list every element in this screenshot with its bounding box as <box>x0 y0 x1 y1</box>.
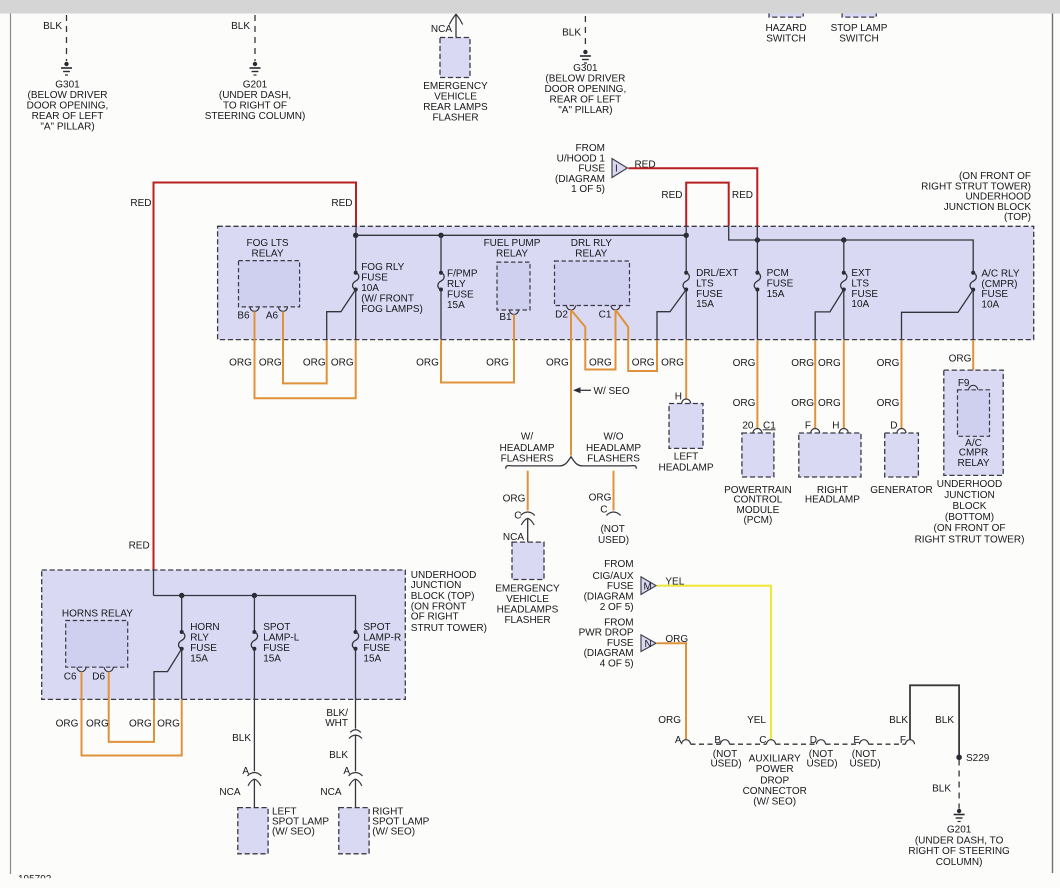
svg-text:H: H <box>832 420 839 431</box>
svg-text:REAR OF LEFT: REAR OF LEFT <box>550 95 622 106</box>
wire ORG from F/PMP fuse to pin B1 <box>441 314 514 382</box>
wire bus 1 inside junction block <box>356 234 687 236</box>
svg-text:E: E <box>853 735 860 746</box>
wire ORG from pin C6 to HORN fuse output <box>82 672 182 756</box>
svg-text:LAMP-R: LAMP-R <box>363 633 401 644</box>
wire ORG jumper pin D2 to pin C1 <box>571 310 616 370</box>
svg-text:(W/ SEO): (W/ SEO) <box>272 827 315 838</box>
wire PCM feed stub (from connector I) into bus 2 <box>756 226 758 240</box>
wire ORG option branch (not used) <box>613 471 615 511</box>
svg-text:ORG: ORG <box>56 718 79 729</box>
label BLK/WHT <box>325 708 348 729</box>
svg-text:BLK: BLK <box>43 21 62 32</box>
svg-text:ORG: ORG <box>791 358 814 369</box>
svg-text:15A: 15A <box>767 289 785 300</box>
wire ORG from A/C fuse to A/C CMPR RELAY pin F9 <box>972 340 974 385</box>
node junction on bus 1 at F/PMP fuse <box>439 233 443 237</box>
svg-text:(BELOW DRIVER: (BELOW DRIVER <box>27 90 107 101</box>
pin C (not used) <box>598 505 629 547</box>
wire BLK from inline connector to pin A <box>355 735 357 771</box>
svg-text:C: C <box>514 511 521 522</box>
wire NCA arrow into emergency vehicle rear lamps flasher <box>431 14 463 42</box>
component: LEFT HEADLAMP <box>658 392 713 474</box>
svg-text:NCA: NCA <box>320 787 341 798</box>
svg-text:"A" PILLAR): "A" PILLAR) <box>558 105 612 116</box>
svg-text:ORG: ORG <box>303 357 326 368</box>
svg-text:RELAY: RELAY <box>575 248 607 259</box>
pin A of RIGHT SPOT LAMP with NCA arrow <box>320 766 362 812</box>
svg-text:15A: 15A <box>447 300 465 311</box>
label AUXILIARY POWER DROP CONNECTOR (W/ SEO) <box>743 753 807 807</box>
svg-text:NCA: NCA <box>503 532 524 543</box>
node junction on bus 1 at FOG fuse <box>354 233 358 237</box>
svg-text:A: A <box>675 735 682 746</box>
svg-text:20: 20 <box>742 420 754 431</box>
svg-text:G301: G301 <box>573 63 598 74</box>
svg-text:ORG: ORG <box>546 358 569 369</box>
wire ORG from DRL/EXT fuse to LEFT HEADLAMP pin H <box>685 340 687 399</box>
wire BLK from pin F up over to S229 <box>910 685 959 757</box>
wire BLK dashed from S229 to ground G201 <box>932 760 959 809</box>
svg-text:USED): USED) <box>598 535 629 546</box>
pin F of aux power drop connector <box>900 735 915 746</box>
svg-text:ORG: ORG <box>129 718 152 729</box>
svg-text:(BELOW DRIVER: (BELOW DRIVER <box>545 74 625 85</box>
svg-text:LEFT: LEFT <box>674 452 698 463</box>
svg-text:N: N <box>645 639 652 650</box>
svg-text:HEADLAMP: HEADLAMP <box>499 443 554 454</box>
underhood junction block (top) - horns section <box>42 570 487 700</box>
svg-text:(ON FRONT OF: (ON FRONT OF <box>933 523 1005 534</box>
svg-text:RED: RED <box>130 198 151 209</box>
svg-text:FLASHER: FLASHER <box>432 113 478 124</box>
svg-text:BLOCK (TOP): BLOCK (TOP) <box>411 591 475 602</box>
svg-text:F/PMP: F/PMP <box>447 269 478 280</box>
svg-text:ORG: ORG <box>949 353 972 364</box>
svg-text:HAZARD: HAZARD <box>765 23 806 34</box>
svg-text:ORG: ORG <box>818 398 841 409</box>
svg-text:W/O: W/O <box>604 432 624 443</box>
pin D (not used) <box>806 735 837 770</box>
svg-text:REAR OF LEFT: REAR OF LEFT <box>32 111 104 122</box>
switch: HAZARD SWITCH (cut off at top) <box>765 6 806 45</box>
pin A6 of FOG LTS RELAY <box>266 307 288 322</box>
fuse F9s: SPOT LAMP-R FUSE 15A <box>352 622 401 700</box>
svg-text:BLK: BLK <box>562 28 581 39</box>
svg-text:ORG: ORG <box>503 494 526 505</box>
pin C6 of HORNS RELAY <box>64 667 86 683</box>
svg-text:DOOR OPENING,: DOOR OPENING, <box>27 101 109 112</box>
svg-text:JUNCTION: JUNCTION <box>411 580 462 591</box>
wire BLK to ground G201 (left) <box>231 15 255 61</box>
svg-text:G201: G201 <box>947 824 972 835</box>
svg-text:(UNDER DASH,: (UNDER DASH, <box>219 90 291 101</box>
pin D2 of DRL RLY RELAY <box>555 306 575 321</box>
svg-text:NCA: NCA <box>431 24 452 35</box>
svg-text:RIGHT OF STEERING: RIGHT OF STEERING <box>908 846 1010 857</box>
svg-text:(UNDER DASH, TO: (UNDER DASH, TO <box>915 835 1004 846</box>
svg-text:4 OF 5): 4 OF 5) <box>600 659 634 670</box>
svg-text:2 OF 5): 2 OF 5) <box>600 602 634 613</box>
svg-text:USED): USED) <box>849 759 880 770</box>
svg-text:BLK: BLK <box>889 715 908 726</box>
svg-text:RED: RED <box>129 540 150 551</box>
relay U1: FOG LTS RELAY <box>239 238 300 307</box>
svg-text:ORG: ORG <box>486 357 509 368</box>
svg-text:S229: S229 <box>966 753 990 764</box>
component: LEFT SPOT LAMP (W/ SEO) <box>238 807 330 854</box>
svg-text:YEL: YEL <box>747 715 766 726</box>
wire RED jumper loop over junction block (bump) <box>686 183 729 227</box>
brace splitting D2 wire into options <box>506 457 637 469</box>
svg-text:RLY: RLY <box>190 633 209 644</box>
wire NCA arrow into EMERGENCY VEHICLE HEADLAMPS FLASHER <box>503 518 534 546</box>
svg-text:A6: A6 <box>266 311 279 322</box>
svg-text:COLUMN): COLUMN) <box>936 857 983 868</box>
svg-text:FUSE: FUSE <box>190 643 217 654</box>
svg-text:(TOP): (TOP) <box>1004 212 1031 223</box>
relay U3: DRL RLY RELAY <box>555 238 630 306</box>
svg-text:DOOR OPENING,: DOOR OPENING, <box>545 84 627 95</box>
svg-text:SWITCH: SWITCH <box>766 34 805 45</box>
underhood junction block (top) <box>218 171 1034 340</box>
fuse F8: SPOT LAMP-L FUSE 15A <box>251 596 300 700</box>
svg-text:ORG: ORG <box>259 357 282 368</box>
component: RIGHT HEADLAMP, pins F and H <box>799 420 861 505</box>
svg-text:A: A <box>343 766 350 777</box>
svg-text:ORG: ORG <box>877 358 900 369</box>
wire ORG from EXT LTS fuse to RIGHT HEADLAMP pin H <box>843 340 845 429</box>
svg-text:C6: C6 <box>64 672 77 683</box>
svg-text:RIGHT STRUT TOWER): RIGHT STRUT TOWER) <box>915 535 1025 546</box>
pin A of aux power drop connector <box>675 735 691 746</box>
svg-text:FLASHERS: FLASHERS <box>501 453 554 464</box>
svg-text:B: B <box>714 735 721 746</box>
svg-text:FUSE: FUSE <box>361 273 388 284</box>
node junction at HORN RLY fuse <box>180 593 184 597</box>
svg-text:"A" PILLAR): "A" PILLAR) <box>40 122 94 133</box>
svg-text:ORG: ORG <box>331 357 354 368</box>
svg-text:TO RIGHT OF: TO RIGHT OF <box>223 101 287 112</box>
pin C of headlamps flasher harness <box>514 511 535 522</box>
svg-text:B6: B6 <box>237 311 250 322</box>
wire RED main loop to left and down to horns junction block <box>154 183 357 571</box>
svg-text:10A: 10A <box>851 299 869 310</box>
pin B6 of FOG LTS RELAY <box>237 307 259 322</box>
svg-text:ORG: ORG <box>229 357 252 368</box>
svg-text:A: A <box>242 766 249 777</box>
svg-text:W/: W/ <box>521 432 533 443</box>
svg-text:ORG: ORG <box>589 358 612 369</box>
svg-text:FROM: FROM <box>604 559 633 570</box>
wire ORG option branch to flasher pin C <box>527 471 529 511</box>
svg-text:EMERGENCY: EMERGENCY <box>423 81 488 92</box>
flasher module: EMERGENCY VEHICLE REAR LAMPS FLASHER <box>423 38 488 124</box>
label option W/O HEADLAMP FLASHERS <box>586 432 641 465</box>
svg-text:VEHICLE: VEHICLE <box>434 92 477 103</box>
svg-text:POWER: POWER <box>756 764 794 775</box>
pin B1 of FUEL PUMP RELAY <box>499 310 518 323</box>
node junction at SPOT LAMP-L fuse <box>252 593 256 597</box>
svg-text:AUXILIARY: AUXILIARY <box>749 753 801 764</box>
svg-text:F: F <box>900 735 906 746</box>
component: POWERTRAIN CONTROL MODULE (PCM), pin 20 connector C1 <box>724 420 792 526</box>
inline connector on right spot lamp wire <box>349 730 362 739</box>
wire ORG from pin A6 to FOG fuse branch <box>283 311 327 383</box>
connector: AUXILIARY POWER DROP CONNECTOR (W/ SEO), pins A-F <box>691 743 906 745</box>
svg-text:B1: B1 <box>499 312 512 323</box>
fuse F7: HORN RLY FUSE 15A <box>154 596 220 700</box>
svg-text:GENERATOR: GENERATOR <box>870 485 932 496</box>
svg-text:FLASHER: FLASHER <box>504 615 550 626</box>
wire ORG from pin D2 down to flasher option brace <box>570 310 572 456</box>
svg-text:USED): USED) <box>806 759 837 770</box>
svg-text:15A: 15A <box>363 653 381 664</box>
wire BLK from SPOT LAMP-L fuse to pin A <box>253 699 255 771</box>
pin C of aux power drop connector <box>759 735 775 746</box>
wire ORG from pin D6 to HORN fuse branch <box>109 672 154 742</box>
svg-text:RELAY: RELAY <box>496 248 528 259</box>
svg-text:15A: 15A <box>696 299 714 310</box>
svg-text:JUNCTION: JUNCTION <box>944 490 995 501</box>
node junction on bus 2 at EXT LTS fuse <box>842 238 846 242</box>
svg-text:UNDERHOOD: UNDERHOOD <box>937 479 1003 490</box>
svg-text:BLK: BLK <box>232 733 251 744</box>
fuse F1: FOG RLY FUSE 10A (W/ FRONT FOG LAMPS) <box>327 235 423 339</box>
svg-text:I: I <box>615 164 618 175</box>
svg-text:BLK: BLK <box>935 715 954 726</box>
fuse F5: EXT LTS FUSE 10A <box>815 240 878 340</box>
svg-text:D: D <box>890 420 897 431</box>
svg-text:FUSE: FUSE <box>363 643 390 654</box>
wire red feed stub into horns bus <box>153 570 155 596</box>
svg-text:HEADLAMP: HEADLAMP <box>586 443 641 454</box>
wire ORG from pin B6 to FOG fuse output <box>255 311 356 398</box>
svg-text:FOG LAMPS): FOG LAMPS) <box>361 304 423 315</box>
wire ORG from EXT LTS fuse branch to RIGHT HEADLAMP pin F <box>814 340 816 429</box>
label W/ SEO with arrow on D2 wire <box>573 386 630 397</box>
node junction on bus 1 at DRL/EXT fuse <box>684 233 688 237</box>
component: RIGHT SPOT LAMP (W/ SEO) <box>339 807 430 854</box>
svg-text:D: D <box>810 735 817 746</box>
wire red feed stub into bus 1 <box>355 226 357 235</box>
svg-text:W/ SEO: W/ SEO <box>594 386 630 397</box>
svg-text:C1: C1 <box>599 309 612 320</box>
svg-text:G301: G301 <box>55 80 80 91</box>
svg-text:ORG: ORG <box>791 398 814 409</box>
svg-text:ORG: ORG <box>632 358 655 369</box>
fuse F3: DRL/EXT LTS FUSE 15A <box>657 235 738 339</box>
wire bus inside horns junction block <box>154 596 356 633</box>
svg-text:(W/ SEO): (W/ SEO) <box>753 796 796 807</box>
svg-text:(W/ FRONT: (W/ FRONT <box>361 294 414 305</box>
flasher module: EMERGENCY VEHICLE HEADLAMPS FLASHER <box>495 542 560 626</box>
svg-text:REAR LAMPS: REAR LAMPS <box>423 102 488 113</box>
svg-text:BLK: BLK <box>231 21 250 32</box>
svg-text:F: F <box>805 420 811 431</box>
switch: STOP LAMP SWITCH (cut off at top) <box>831 6 888 45</box>
svg-text:BLK: BLK <box>329 750 348 761</box>
svg-text:RED: RED <box>661 190 682 201</box>
svg-text:OF RIGHT: OF RIGHT <box>411 612 459 623</box>
wire RED from connector I to PCM fuse column <box>628 168 757 226</box>
svg-text:ORG: ORG <box>157 718 180 729</box>
underhood junction block (bottom) containing A/C CMPR RELAY <box>944 370 1003 475</box>
svg-text:ORG: ORG <box>589 493 612 504</box>
svg-text:1 OF 5): 1 OF 5) <box>571 184 605 195</box>
svg-text:10A: 10A <box>981 299 999 310</box>
svg-text:CIG/AUX: CIG/AUX <box>592 571 633 582</box>
svg-text:15A: 15A <box>263 653 281 664</box>
svg-text:CONNECTOR: CONNECTOR <box>743 786 807 797</box>
svg-text:ORG: ORG <box>661 358 684 369</box>
svg-text:C: C <box>600 505 607 516</box>
svg-text:FUSE: FUSE <box>263 643 290 654</box>
fuse F6: A/C RLY (CMPR) FUSE 10A <box>902 269 1020 340</box>
svg-text:ORG: ORG <box>658 715 681 726</box>
svg-text:HEADLAMP: HEADLAMP <box>658 463 713 474</box>
svg-text:SPOT: SPOT <box>263 622 290 633</box>
svg-text:FUSE: FUSE <box>447 290 474 301</box>
pin F9 of A/C CMPR RELAY <box>958 378 978 390</box>
svg-text:ORG: ORG <box>733 398 756 409</box>
svg-text:FLASHERS: FLASHERS <box>587 453 640 464</box>
svg-text:USED): USED) <box>710 759 741 770</box>
window chrome top bar <box>0 0 1060 14</box>
connector N: FROM PWR DROP FUSE (DIAGRAM 4 OF 5) <box>579 617 656 669</box>
svg-text:ORG: ORG <box>818 358 841 369</box>
svg-text:(BOTTOM): (BOTTOM) <box>945 512 994 523</box>
label underhood junction block (bottom) location <box>915 479 1025 546</box>
svg-text:STRUT TOWER): STRUT TOWER) <box>411 623 487 634</box>
wire ORG from pin C1 to DRL/EXT fuse branch <box>616 310 658 371</box>
svg-text:SWITCH: SWITCH <box>839 34 878 45</box>
wire BLK to ground G301 (left) <box>43 15 66 61</box>
fuse F2: F/PMP RLY FUSE 15A <box>438 235 478 339</box>
svg-text:D6: D6 <box>92 672 105 683</box>
pin E (not used) <box>849 735 880 770</box>
svg-text:STOP LAMP: STOP LAMP <box>831 23 888 34</box>
svg-text:D2: D2 <box>555 309 568 320</box>
relay U5: HORNS RELAY <box>62 608 133 667</box>
wire ORG from connector N to aux connector pin A <box>657 643 686 740</box>
wire DRL/EXT feed stub into bus 1 <box>685 226 687 235</box>
svg-text:ORG: ORG <box>416 357 439 368</box>
svg-text:CMPR: CMPR <box>959 448 988 459</box>
svg-text:(NOT: (NOT <box>600 524 624 535</box>
wire ORG from PCM fuse to PCM pin 20/C1 <box>756 340 758 429</box>
svg-text:HEADLAMP: HEADLAMP <box>805 495 860 506</box>
svg-text:ORG: ORG <box>86 718 109 729</box>
svg-text:RED: RED <box>331 198 352 209</box>
svg-text:FUSE: FUSE <box>607 581 634 592</box>
svg-text:HORNS RELAY: HORNS RELAY <box>62 608 133 619</box>
svg-text:C: C <box>759 735 766 746</box>
component: GENERATOR, pin D <box>870 420 932 496</box>
svg-text:RELAY: RELAY <box>251 248 283 259</box>
wire YEL from connector M to aux connector pin C <box>657 586 771 740</box>
svg-text:BLOCK: BLOCK <box>953 501 987 512</box>
connector M: FROM CIG/AUX FUSE (DIAGRAM 2 OF 5) <box>584 559 656 613</box>
ground G301 (below driver door opening, rear of left A pillar) <box>545 50 627 116</box>
svg-text:HORN: HORN <box>190 622 219 633</box>
svg-text:NCA: NCA <box>219 787 240 798</box>
connector I: FROM U/HOOD 1 FUSE (DIAGRAM 1 OF 5) <box>555 143 627 195</box>
svg-text:BLK: BLK <box>932 784 951 795</box>
wire ORG from A/C fuse branch to GENERATOR pin D <box>901 340 903 429</box>
pin C1 of DRL RLY RELAY <box>599 306 620 321</box>
svg-text:FOG RLY: FOG RLY <box>361 262 404 273</box>
node S229 splice <box>957 753 990 764</box>
node junction on bus 2 at PCM fuse <box>755 238 759 242</box>
svg-text:M: M <box>644 581 652 592</box>
svg-text:10A: 10A <box>361 283 379 294</box>
ground G201 (under dash) <box>205 62 306 122</box>
svg-text:RED: RED <box>732 190 753 201</box>
wire BLK/WHT from SPOT LAMP-R fuse to inline connector <box>355 699 357 728</box>
wire BLK to ground G301 (middle) <box>562 16 585 46</box>
pin A of LEFT SPOT LAMP with NCA arrow <box>219 766 261 812</box>
svg-text:WHT: WHT <box>325 718 348 729</box>
svg-text:(PCM): (PCM) <box>743 515 772 526</box>
svg-text:(W/ SEO): (W/ SEO) <box>372 827 415 838</box>
svg-text:VEHICLE: VEHICLE <box>506 594 549 605</box>
fuse F4: PCM FUSE 15A <box>754 240 793 340</box>
label option W/ HEADLAMP FLASHERS <box>499 432 554 465</box>
relay U2: FUEL PUMP RELAY <box>484 238 541 310</box>
svg-text:ORG: ORG <box>877 398 900 409</box>
svg-text:G201: G201 <box>243 80 268 91</box>
svg-text:15A: 15A <box>190 653 208 664</box>
svg-text:HEADLAMPS: HEADLAMPS <box>497 605 559 616</box>
svg-text:RLY: RLY <box>447 279 466 290</box>
wire bus 2 inside junction block <box>729 226 974 272</box>
svg-text:F9: F9 <box>958 378 970 389</box>
svg-text:(DIAGRAM: (DIAGRAM <box>584 648 634 659</box>
ground G301 (below driver door opening) <box>27 62 109 132</box>
svg-text:ORG: ORG <box>733 358 756 369</box>
svg-text:SPOT: SPOT <box>363 622 390 633</box>
pin D6 of HORNS RELAY <box>92 667 113 683</box>
svg-text:H: H <box>675 392 682 403</box>
svg-text:EMERGENCY: EMERGENCY <box>495 584 560 595</box>
svg-text:STEERING COLUMN): STEERING COLUMN) <box>205 111 306 122</box>
svg-text:LAMP-L: LAMP-L <box>263 633 300 644</box>
svg-text:FROM: FROM <box>604 617 633 628</box>
pin B (not used) <box>710 735 741 770</box>
relay U4: A/C CMPR RELAY <box>957 390 989 469</box>
svg-text:RELAY: RELAY <box>957 458 989 469</box>
ground G201 (under dash, to right of steering column) <box>908 809 1010 868</box>
